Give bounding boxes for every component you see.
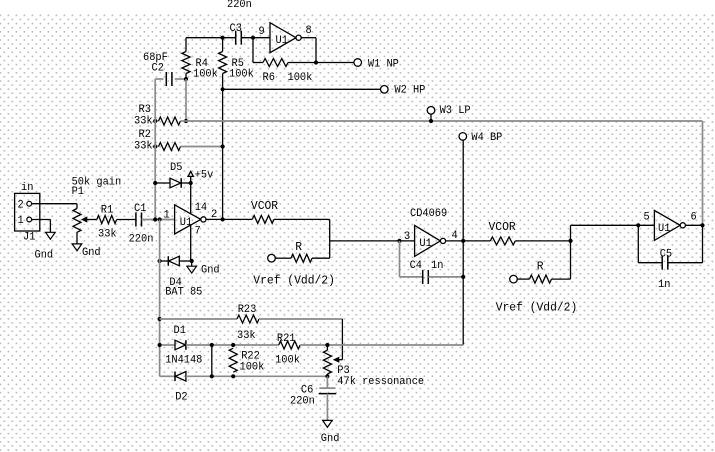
- wire C4 left down: [399, 241, 401, 277]
- node rail-lower input: [158, 217, 162, 221]
- wire gray node down to R3 right: [185, 79, 187, 121]
- op-amp U1 right inverter: [654, 210, 680, 240]
- node pin6 junction: [700, 223, 704, 227]
- node pin9-C3: [251, 36, 255, 40]
- wire C5 bottom left: [638, 262, 662, 264]
- wire C5 right up: [702, 225, 704, 262]
- node D4-pin7-gnd: [190, 259, 194, 263]
- wire C2 right: [175, 78, 186, 80]
- wire Vref1 to R1body: [275, 257, 291, 259]
- node W3 tap: [429, 119, 433, 123]
- wire R5 rail down to summing node: [222, 74, 224, 220]
- node summing rail on node2 wire: [221, 217, 225, 221]
- node R22 top: [231, 343, 235, 347]
- wire LP line down right side: [702, 121, 704, 225]
- diode D4: [167, 256, 169, 266]
- diode D5: [170, 178, 181, 188]
- wire J1 pin1 to gnd: [32, 219, 51, 221]
- op-amp U1 top inverter: [270, 23, 296, 53]
- resistor R4: [182, 52, 190, 74]
- terminal W3 LP: [427, 107, 435, 115]
- wire P3 bottom stub: [326, 374, 328, 376]
- wire pin9 node down to R6: [252, 38, 254, 63]
- wire R6 left: [253, 62, 263, 64]
- resistor VCOR2: [490, 237, 515, 245]
- wire pin5 row: [571, 224, 655, 226]
- op-amp U1 CD4069 inverter: [415, 225, 441, 256]
- wire D2 row: [186, 375, 328, 377]
- pin circle J1-2: [27, 201, 32, 206]
- wire P3 top stub: [326, 345, 328, 350]
- potentiometer P1: [73, 209, 81, 233]
- wire R3 left stub: [155, 120, 158, 122]
- wire node2 output: [206, 218, 252, 220]
- wire W2 HP line: [223, 88, 381, 90]
- wire R4 bottom: [185, 74, 187, 80]
- node D1-D2 vertical top: [210, 343, 214, 347]
- ground C6: [323, 420, 333, 427]
- wire R6 right to W1: [288, 62, 354, 64]
- resistor R2: [159, 143, 181, 151]
- wire P1 bottom to gnd: [76, 232, 78, 244]
- wire LP line long: [186, 120, 703, 122]
- wire VCOR1 right: [274, 218, 330, 220]
- resistor R (Vref2): [530, 275, 552, 283]
- wire C6 top: [326, 376, 328, 388]
- node rail R23: [158, 317, 162, 321]
- wire VCOR1 box vertical: [329, 219, 331, 258]
- pin circle J1-1: [27, 217, 32, 222]
- node C4 right: [461, 275, 465, 279]
- wire to pin 3: [330, 240, 415, 242]
- wire C4 left horiz: [400, 276, 423, 278]
- wire R2body right to box: [552, 278, 571, 280]
- node pin3-C4: [397, 239, 401, 243]
- diode D2: [174, 372, 176, 382]
- wire node to R4 top: [185, 38, 187, 52]
- wire D1 anode stub: [160, 344, 175, 346]
- wire J1 pin2 to P1 top: [32, 203, 77, 205]
- wire C3 input from node R4-top: [186, 37, 235, 39]
- node P3 top: [325, 343, 329, 347]
- terminal W1 NP: [354, 59, 362, 67]
- resistor R (Vref1): [291, 254, 312, 262]
- terminal W4 BP: [459, 133, 467, 141]
- resistor R6: [263, 59, 288, 67]
- wire R2 right to rail: [181, 146, 223, 148]
- potentiometer P3: [323, 350, 331, 374]
- terminal Vref1: [268, 254, 276, 262]
- wire C3 to pin 9: [241, 37, 270, 39]
- node R6-output junction: [314, 60, 318, 64]
- wire VCOR2 left: [463, 240, 490, 242]
- wire R5 rail top: [222, 38, 224, 52]
- wire D5 anode stub: [155, 182, 170, 184]
- wire R23 down to wiper: [341, 319, 343, 360]
- resistor R21: [279, 341, 300, 349]
- resistor VCOR1: [252, 215, 274, 223]
- ground D4: [187, 266, 197, 273]
- node R3 right / LP line start: [184, 119, 188, 123]
- node VCOR2 box: [568, 239, 572, 243]
- capacitor C3: [235, 31, 237, 45]
- diode D1: [175, 340, 186, 350]
- capacitor C4: [422, 270, 424, 284]
- wire R2 left stub: [155, 146, 158, 148]
- resistor R23: [237, 315, 259, 323]
- wire D1-D2 vertical: [211, 345, 213, 376]
- wire D5 cathode: [181, 182, 191, 184]
- node W2 tap: [221, 87, 225, 91]
- wire C5 bottom right: [668, 262, 703, 264]
- wire R21 right to W4 corner: [300, 344, 463, 346]
- node pin5-C5: [636, 223, 640, 227]
- wiper arrow P1: [86, 219, 97, 221]
- wire R23 right: [259, 318, 342, 320]
- node D2 right: [210, 374, 214, 378]
- node D5-+5v-pin14: [189, 181, 193, 185]
- wire summing rail lower: [159, 220, 161, 377]
- wire VCOR2 right: [515, 240, 570, 242]
- wire C5 left down: [637, 225, 639, 262]
- wire D4 cathode stub: [160, 260, 169, 262]
- terminal Vref2: [510, 275, 518, 283]
- capacitor C1: [135, 213, 137, 227]
- capacitor C6 bottom plate: [319, 393, 337, 395]
- wire R23 left: [160, 318, 237, 320]
- node rail-upper input: [153, 217, 157, 221]
- wire R3 right stub: [181, 120, 187, 122]
- node R22 bottom: [231, 374, 235, 378]
- wire C1 to pin1: [142, 219, 175, 221]
- node R2 right on R5 rail: [221, 144, 225, 148]
- wire U1 output to feedback corner: [301, 37, 316, 39]
- wire pin 7: [190, 225, 192, 261]
- wire W3 stub: [430, 114, 432, 121]
- capacitor C5: [661, 256, 663, 270]
- resistor R3: [159, 117, 181, 125]
- power +5v symbol: [190, 177, 192, 183]
- wire pin6 output: [685, 224, 702, 226]
- ground J1: [46, 232, 56, 239]
- node C3-left on R5 rail: [221, 36, 225, 40]
- connector J1: [15, 193, 40, 231]
- wire pin 14: [190, 183, 192, 214]
- wire summing rail upper: [154, 79, 156, 220]
- wire pin4 output: [446, 240, 464, 242]
- wire box2 vertical: [570, 225, 572, 279]
- node R2 left on rail: [153, 144, 157, 148]
- wire W4 vertical: [462, 140, 464, 345]
- op-amp U1 main inverter: [175, 205, 201, 234]
- wire C6 bottom: [326, 394, 328, 421]
- wire gnd D4 stub: [191, 261, 193, 266]
- wire R right to box: [312, 257, 330, 259]
- node D5 anode on rail: [153, 181, 157, 185]
- wiper arrow P3: [338, 359, 343, 361]
- terminal W2 HP: [381, 86, 389, 94]
- wire R1 to C1: [117, 219, 136, 221]
- wire Vref2 to Rbody: [517, 278, 529, 280]
- wire C4 right horiz: [428, 276, 463, 278]
- node C2-R4: [184, 77, 188, 81]
- wire D1 row middle: [186, 344, 279, 346]
- resistor R1: [97, 216, 117, 224]
- capacitor C2: [165, 72, 167, 86]
- wire C2 left: [155, 78, 163, 80]
- resistor R22: [229, 348, 237, 372]
- node rail D1: [158, 343, 162, 347]
- capacitor C6 top plate: [319, 387, 335, 389]
- node pin4 junction: [461, 239, 465, 243]
- ground P1: [72, 244, 82, 251]
- wire D4 anode: [179, 260, 191, 262]
- node P3 bottom C6: [325, 374, 329, 378]
- wire D2 cathode stub: [160, 375, 175, 377]
- node R3 left on rail: [153, 119, 157, 123]
- node D4 on rail: [158, 259, 162, 263]
- resistor R5: [219, 52, 227, 74]
